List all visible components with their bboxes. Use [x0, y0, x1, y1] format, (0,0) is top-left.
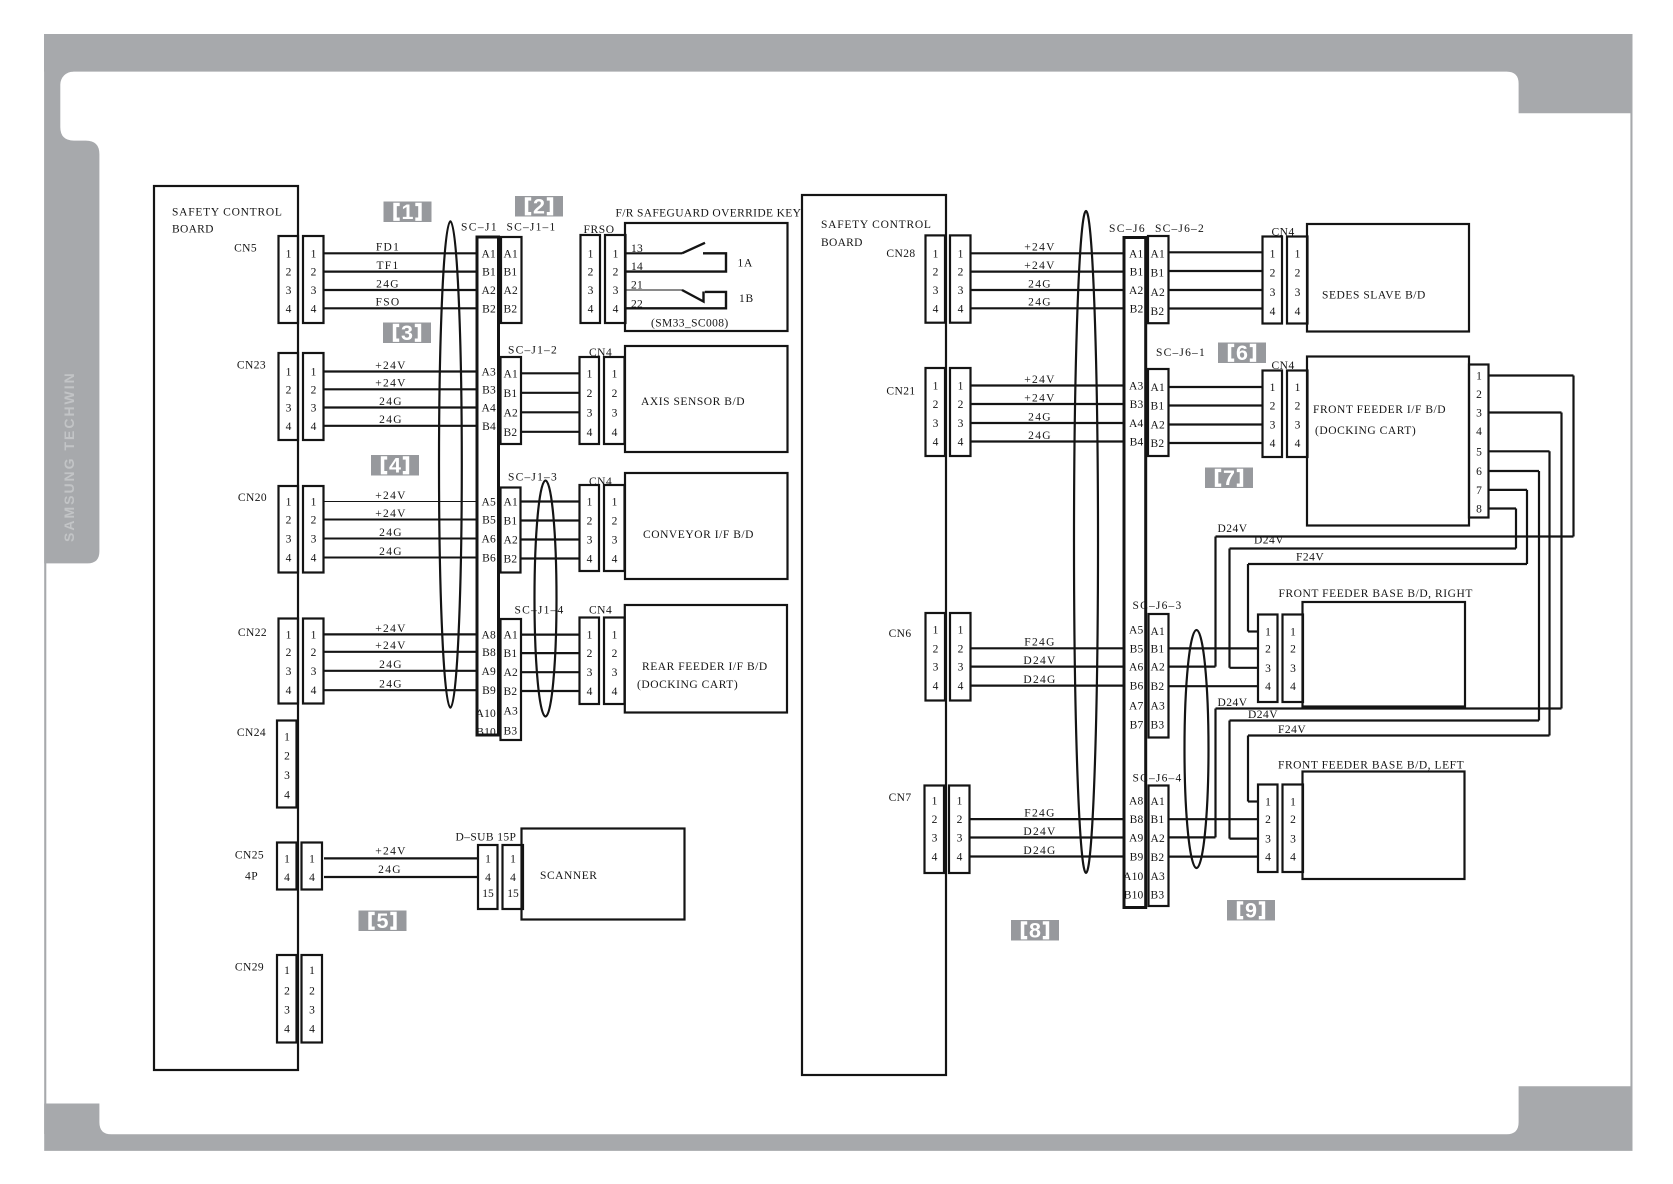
svg-text:4: 4 — [612, 427, 618, 439]
svg-text:A4: A4 — [482, 403, 497, 415]
svg-text:1: 1 — [933, 248, 939, 260]
wire TF1 CN5.2 to SC-J1 — [324, 271, 477, 273]
svg-text:4: 4 — [309, 1024, 315, 1036]
wire vert link D24V right b — [1228, 549, 1230, 668]
svg-text:FSO: FSO — [376, 297, 401, 309]
svg-text:SC–J1–1: SC–J1–1 — [507, 222, 557, 234]
svg-text:5: 5 — [377, 909, 389, 933]
svg-text:3: 3 — [587, 535, 593, 547]
svg-text:SC–J6: SC–J6 — [1109, 223, 1146, 235]
wire I/F pin6 horiz — [1489, 470, 1540, 472]
svg-text:SC–J6–3: SC–J6–3 — [1133, 600, 1183, 612]
connector base right CN — [1258, 615, 1303, 703]
svg-text:FRONT FEEDER BASE B/D, LEFT: FRONT FEEDER BASE B/D, LEFT — [1278, 760, 1464, 772]
svg-text:2: 2 — [587, 516, 593, 528]
wire +24V CN23.2 to SC-J1 — [324, 388, 477, 390]
svg-text:CN28: CN28 — [886, 248, 915, 260]
wire SC-J1-3.1 to CN4 conveyor — [521, 500, 581, 502]
svg-text:1: 1 — [309, 965, 315, 977]
svg-text:A9: A9 — [1129, 833, 1144, 845]
svg-text:1: 1 — [286, 367, 292, 379]
svg-text:A2: A2 — [504, 407, 519, 419]
svg-text:B2: B2 — [1151, 681, 1165, 693]
wire SC-J6-1.2 to CN4 ff — [1169, 404, 1264, 406]
wire 24G CN20.4 to SC-J1 — [324, 557, 477, 559]
svg-text:A6: A6 — [482, 534, 497, 546]
wire SC-J1-3.4 to CN4 conveyor — [521, 557, 581, 559]
svg-text:1: 1 — [613, 248, 619, 260]
connector SC-J1-1 — [501, 237, 522, 323]
svg-text:2: 2 — [311, 647, 317, 659]
connector CN6 — [926, 613, 971, 701]
svg-text:3: 3 — [958, 418, 964, 430]
wire SC-J1-4.1 to CN4 rear — [521, 633, 580, 635]
wire D24V CN6 to SC-J6 — [970, 665, 1124, 667]
svg-text:1: 1 — [1270, 382, 1276, 394]
svg-text:2: 2 — [1290, 814, 1296, 826]
svg-text:4: 4 — [587, 427, 593, 439]
svg-text:3: 3 — [933, 285, 939, 297]
svg-text:B2: B2 — [1130, 303, 1144, 315]
svg-text:3: 3 — [1295, 287, 1301, 299]
wire D24V run1b — [1230, 547, 1517, 549]
badge [7] — [1205, 466, 1253, 490]
connector CN4 sedes — [1263, 237, 1308, 324]
svg-text:A3: A3 — [482, 367, 497, 379]
svg-text:3: 3 — [286, 666, 292, 678]
wire I/F pin1 vert — [1572, 376, 1574, 537]
svg-text:4: 4 — [933, 437, 939, 449]
svg-text:24G: 24G — [379, 527, 403, 539]
svg-text:1: 1 — [932, 796, 938, 808]
frame left edge line — [44, 34, 46, 1134]
wire +24V CN20.2 to SC-J1 — [324, 519, 477, 521]
wire 24G CN28.4 to SC-J6 — [972, 307, 1125, 309]
svg-text:3: 3 — [587, 667, 593, 679]
svg-text:1: 1 — [284, 965, 290, 977]
svg-text:B5: B5 — [482, 515, 496, 527]
svg-text:CN21: CN21 — [886, 386, 915, 398]
svg-text:3: 3 — [286, 534, 292, 546]
wire 24G CN23.4 to SC-J1 — [324, 425, 477, 427]
svg-text:B1: B1 — [1151, 814, 1165, 826]
svg-text:3: 3 — [587, 407, 593, 419]
svg-text:+24V: +24V — [375, 360, 407, 372]
svg-text:BOARD: BOARD — [821, 237, 863, 249]
connector CN25 — [277, 843, 322, 890]
svg-text:2: 2 — [958, 267, 964, 279]
svg-text:CN25: CN25 — [235, 850, 264, 862]
svg-text:4: 4 — [613, 303, 619, 315]
svg-text:A1: A1 — [504, 630, 519, 642]
wire 24G CN23.3 to SC-J1 — [324, 406, 477, 408]
wire contact 13 — [625, 252, 682, 254]
svg-text:A8: A8 — [1129, 796, 1144, 808]
svg-text:A1: A1 — [504, 248, 519, 260]
wire 24G CN28.3 to SC-J6 — [972, 289, 1125, 291]
svg-text:3: 3 — [309, 1005, 315, 1017]
frame right edge line — [1630, 72, 1632, 1135]
svg-text:B1: B1 — [504, 516, 518, 528]
svg-text:A8: A8 — [482, 629, 497, 641]
connector SC-J1-2 — [501, 357, 522, 444]
svg-text:3: 3 — [1476, 408, 1482, 420]
svg-text:4: 4 — [957, 852, 963, 864]
svg-text:24G: 24G — [378, 864, 402, 876]
svg-text:F24G: F24G — [1024, 637, 1055, 649]
svg-text:B2: B2 — [1151, 852, 1165, 864]
svg-text:3: 3 — [1290, 834, 1296, 846]
svg-text:3: 3 — [612, 667, 618, 679]
svg-text:A2: A2 — [1151, 833, 1166, 845]
svg-text:3: 3 — [933, 418, 939, 430]
svg-text:CN4: CN4 — [589, 605, 612, 617]
svg-text:B3: B3 — [1151, 720, 1165, 732]
svg-text:2: 2 — [309, 986, 315, 998]
connector D-SUB 15P — [478, 845, 523, 909]
svg-text:B1: B1 — [504, 648, 518, 660]
svg-text:15: 15 — [482, 888, 494, 900]
svg-text:2: 2 — [311, 267, 317, 279]
svg-text:SC–J6–2: SC–J6–2 — [1155, 223, 1205, 235]
svg-text:A2: A2 — [1151, 287, 1166, 299]
svg-text:A1: A1 — [504, 368, 519, 380]
svg-text:1: 1 — [1265, 797, 1271, 809]
box SCANNER — [522, 829, 685, 920]
wire SC-J1-4.2 to CN4 rear — [521, 652, 580, 654]
wire vert link D24V left — [1214, 709, 1216, 838]
frame bottom band with corner tabs — [44, 1086, 1632, 1151]
svg-text:CN20: CN20 — [238, 492, 267, 504]
wire vert link D24V left b — [1228, 721, 1230, 839]
svg-text:1: 1 — [286, 497, 292, 509]
wire D24G SC-J6-3 to base right — [1169, 685, 1259, 687]
wire +24V CN22.1 to SC-J1 — [324, 633, 477, 635]
svg-text:A1: A1 — [504, 497, 519, 509]
box AXIS SENSOR B/D — [625, 346, 788, 452]
frame left sidebar — [44, 71, 99, 564]
wire SC-J1-2.3 to CN4 axis — [521, 411, 580, 413]
box FRONT FEEDER BASE B/D RIGHT — [1303, 602, 1466, 707]
svg-text:A9: A9 — [482, 666, 497, 678]
wire SC-J1-2.4 to CN4 axis — [521, 431, 580, 433]
wire 24G CN5.3 to SC-J1 — [324, 289, 477, 291]
svg-text:24G: 24G — [379, 414, 403, 426]
svg-text:4: 4 — [612, 686, 618, 698]
svg-text:B4: B4 — [1130, 437, 1144, 449]
svg-text:1: 1 — [1295, 382, 1301, 394]
svg-text:4: 4 — [1290, 852, 1296, 864]
svg-text:1: 1 — [286, 248, 292, 260]
svg-text:3: 3 — [933, 662, 939, 674]
connector SC-J1-3 — [501, 488, 521, 573]
svg-text:1: 1 — [311, 367, 317, 379]
svg-text:4: 4 — [958, 681, 964, 693]
connector SC-J6-3 — [1149, 614, 1169, 738]
svg-text:B1: B1 — [1151, 644, 1165, 656]
svg-text:4: 4 — [311, 553, 317, 565]
svg-text:SC–J1–3: SC–J1–3 — [508, 472, 558, 484]
svg-text:D24G: D24G — [1023, 845, 1056, 857]
wire FD1 CN5.1 to SC-J1 — [324, 252, 477, 254]
svg-text:1: 1 — [587, 630, 593, 642]
svg-text:1B: 1B — [739, 293, 754, 305]
svg-text:SC–J1–4: SC–J1–4 — [515, 605, 565, 617]
svg-text:A1: A1 — [1151, 626, 1166, 638]
svg-text:+24V: +24V — [1024, 260, 1056, 272]
svg-text:D24V: D24V — [1218, 523, 1248, 535]
svg-text:4: 4 — [286, 685, 292, 697]
badge [4] — [371, 454, 419, 478]
svg-text:+24V: +24V — [375, 623, 407, 635]
wire I/F pin5 vert — [1548, 451, 1550, 735]
connector CN4 rear — [580, 618, 625, 705]
svg-text:A3: A3 — [1129, 381, 1144, 393]
svg-text:B9: B9 — [1130, 852, 1144, 864]
wire vert link F24V right — [1247, 564, 1249, 632]
svg-text:+24V: +24V — [375, 508, 407, 520]
contact bracket 1B — [625, 292, 726, 308]
svg-text:1: 1 — [284, 732, 290, 744]
svg-text:1: 1 — [284, 853, 290, 865]
svg-text:4: 4 — [286, 303, 292, 315]
svg-text:6: 6 — [1476, 466, 1482, 478]
wire vert link D24V right — [1214, 537, 1216, 667]
svg-text:4: 4 — [588, 303, 594, 315]
svg-text:A5: A5 — [1129, 624, 1144, 636]
wire vert link F24V left — [1247, 736, 1249, 802]
svg-text:1: 1 — [958, 381, 964, 393]
wire base right pin1 stub — [1248, 630, 1258, 632]
svg-text:1: 1 — [1290, 627, 1296, 639]
wire I/F pin3 horiz — [1489, 411, 1562, 413]
svg-text:4: 4 — [1270, 306, 1276, 318]
svg-text:F24V: F24V — [1296, 552, 1324, 564]
svg-text:D24V: D24V — [1023, 655, 1056, 667]
svg-text:4: 4 — [309, 872, 315, 884]
svg-text:2: 2 — [311, 384, 317, 396]
svg-text:B5: B5 — [1130, 643, 1144, 655]
svg-text:4: 4 — [311, 685, 317, 697]
left safety control board — [154, 186, 298, 1070]
wire SC-J1-3.2 to CN4 conveyor — [521, 519, 581, 521]
svg-text:24G: 24G — [379, 659, 403, 671]
wire I/F pin1 horiz — [1489, 374, 1574, 376]
svg-text:1: 1 — [587, 497, 593, 509]
svg-text:2: 2 — [588, 267, 594, 279]
svg-text:A1: A1 — [1151, 248, 1166, 260]
svg-text:1: 1 — [402, 200, 414, 224]
right safety control board — [802, 195, 946, 1075]
badge [1] — [384, 200, 432, 224]
svg-text:2: 2 — [284, 986, 290, 998]
svg-text:3: 3 — [286, 403, 292, 415]
svg-text:7: 7 — [1476, 485, 1482, 497]
svg-text:15: 15 — [507, 888, 519, 900]
badge [3] — [383, 321, 431, 345]
wire +24V CN21.2 to SC-J6 — [972, 403, 1125, 405]
svg-text:1: 1 — [1265, 627, 1271, 639]
connector FRSO — [581, 235, 626, 323]
svg-text:3: 3 — [612, 407, 618, 419]
svg-text:1: 1 — [311, 248, 317, 260]
wire SC-J6-2.1 to CN4 sedes — [1169, 251, 1264, 253]
svg-text:FD1: FD1 — [376, 242, 400, 254]
svg-text:3: 3 — [1265, 663, 1271, 675]
wire SC-J6-2.2 to CN4 sedes — [1169, 270, 1264, 272]
cable bundle ellipse SC-J6-3/4 — [1185, 630, 1209, 868]
svg-text:1: 1 — [587, 368, 593, 380]
svg-text:4: 4 — [587, 686, 593, 698]
svg-text:B2: B2 — [1151, 306, 1165, 318]
wire SC-J1-4.3 to CN4 rear — [521, 671, 580, 673]
svg-text:B9: B9 — [482, 685, 496, 697]
connector SC-J6-2 — [1148, 236, 1169, 323]
svg-text:2: 2 — [286, 267, 292, 279]
svg-text:A5: A5 — [482, 497, 497, 509]
svg-text:CN5: CN5 — [234, 243, 257, 255]
connector CN4 axis — [580, 357, 625, 444]
wire SC-J6-1.4 to CN4 ff — [1169, 442, 1264, 444]
svg-text:3: 3 — [284, 1005, 290, 1017]
svg-text:4: 4 — [284, 790, 290, 802]
svg-text:2: 2 — [311, 515, 317, 527]
svg-text:1: 1 — [485, 853, 491, 865]
svg-text:2: 2 — [533, 195, 545, 219]
box FRONT FEEDER I/F B/D — [1307, 357, 1469, 526]
svg-text:A10: A10 — [1123, 871, 1143, 883]
svg-text:1: 1 — [958, 624, 964, 636]
svg-text:B2: B2 — [504, 427, 518, 439]
svg-text:3: 3 — [1290, 663, 1296, 675]
wire F24G CN6 to SC-J6 — [970, 647, 1124, 649]
svg-text:4: 4 — [286, 553, 292, 565]
svg-text:24G: 24G — [379, 679, 403, 691]
svg-text:2: 2 — [1295, 401, 1301, 413]
svg-text:A3: A3 — [504, 706, 519, 718]
svg-text:+24V: +24V — [1024, 242, 1056, 254]
svg-text:4: 4 — [933, 303, 939, 315]
box CONVEYOR I/F B/D — [625, 473, 788, 579]
svg-text:24G: 24G — [379, 396, 403, 408]
wire 24G CN20.3 to SC-J1 — [324, 538, 477, 540]
svg-text:D–SUB 15P: D–SUB 15P — [456, 832, 517, 844]
svg-text:B2: B2 — [504, 686, 518, 698]
svg-text:+24V: +24V — [1024, 374, 1056, 386]
svg-text:3: 3 — [401, 321, 413, 345]
wire +24V CN28.2 to SC-J6 — [972, 271, 1125, 273]
wire D24V SC-J6-3 seg — [1169, 665, 1216, 667]
svg-text:4: 4 — [1265, 681, 1271, 693]
wire F24G CN7 to SC-J6 — [970, 818, 1124, 820]
wire I/F pin3 vert — [1560, 413, 1562, 709]
svg-text:+24V: +24V — [1024, 392, 1056, 404]
wire F24V run1 — [1248, 563, 1527, 565]
svg-text:3: 3 — [311, 285, 317, 297]
svg-text:+24V: +24V — [375, 640, 407, 652]
badge [6] — [1218, 341, 1266, 365]
svg-text:1: 1 — [510, 853, 516, 865]
wire 24G CN22.3 to SC-J1 — [324, 670, 477, 672]
svg-text:1: 1 — [612, 497, 618, 509]
svg-text:6: 6 — [1236, 341, 1248, 365]
wire +24V CN25 to D-SUB — [324, 857, 478, 859]
svg-text:2: 2 — [286, 647, 292, 659]
contact bracket 1A — [625, 253, 726, 271]
svg-text:B6: B6 — [1130, 681, 1144, 693]
connector CN29 — [277, 955, 322, 1043]
svg-text:2: 2 — [612, 648, 618, 660]
svg-text:2: 2 — [933, 267, 939, 279]
svg-text:4: 4 — [958, 437, 964, 449]
svg-text:8: 8 — [1029, 919, 1041, 943]
svg-text:A6: A6 — [1129, 662, 1144, 674]
svg-text:A2: A2 — [482, 285, 497, 297]
svg-text:A1: A1 — [482, 248, 497, 260]
connector CN5 — [279, 236, 324, 323]
svg-text:A10: A10 — [476, 708, 496, 720]
svg-text:24G: 24G — [379, 546, 403, 558]
svg-text:2: 2 — [933, 399, 939, 411]
svg-text:1A: 1A — [738, 258, 753, 270]
svg-text:2: 2 — [958, 643, 964, 655]
svg-text:CN24: CN24 — [237, 727, 266, 739]
svg-text:3: 3 — [932, 833, 938, 845]
wire 24G CN21.4 to SC-J6 — [972, 440, 1125, 442]
connector CN28 — [926, 235, 971, 322]
svg-text:A2: A2 — [1151, 420, 1166, 432]
svg-text:2: 2 — [612, 516, 618, 528]
svg-text:D24V: D24V — [1248, 709, 1278, 721]
wire 24G CN25 to D-SUB — [324, 876, 478, 878]
svg-text:2: 2 — [612, 388, 618, 400]
svg-text:A2: A2 — [1151, 662, 1166, 674]
wire F24V run2 — [1248, 734, 1550, 736]
svg-text:8: 8 — [1476, 504, 1482, 516]
svg-text:1: 1 — [286, 629, 292, 641]
wire 24G CN22.4 to SC-J1 — [324, 689, 477, 691]
svg-text:1: 1 — [612, 630, 618, 642]
svg-text:2: 2 — [932, 814, 938, 826]
svg-text:SAMSUNG TECHWIN: SAMSUNG TECHWIN — [61, 371, 77, 542]
svg-text:1: 1 — [311, 629, 317, 641]
svg-text:3: 3 — [1265, 834, 1271, 846]
connector CN24 — [277, 721, 297, 808]
svg-text:3: 3 — [311, 403, 317, 415]
wire base left pin1 stub — [1248, 800, 1258, 802]
svg-text:24G: 24G — [1028, 297, 1052, 309]
connector SC-J1-4 — [501, 619, 522, 740]
wire +24V CN20.1 to SC-J1 — [324, 501, 477, 503]
svg-text:1: 1 — [1476, 371, 1482, 383]
wire +24V CN21.1 to SC-J6 — [972, 384, 1125, 386]
svg-text:F/R SAFEGUARD OVERRIDE KEY: F/R SAFEGUARD OVERRIDE KEY — [616, 208, 802, 220]
svg-text:3: 3 — [612, 535, 618, 547]
svg-text:(DOCKING CART): (DOCKING CART) — [637, 679, 738, 691]
wire SC-J1-2.2 to CN4 axis — [521, 392, 580, 394]
svg-text:D24V: D24V — [1023, 826, 1056, 838]
wire D24V run2a — [1216, 707, 1562, 709]
wire 24G CN21.3 to SC-J6 — [972, 422, 1125, 424]
wire D24V CN7 to SC-J6 — [970, 836, 1124, 838]
svg-text:A2: A2 — [504, 535, 519, 547]
svg-text:4: 4 — [1265, 852, 1271, 864]
svg-text:A3: A3 — [1151, 871, 1166, 883]
svg-text:9: 9 — [1245, 899, 1257, 923]
svg-text:4: 4 — [958, 303, 964, 315]
cable bundle ellipse SC-J1-3/4 — [535, 481, 557, 717]
wire D24V to base left pin3 — [1230, 837, 1259, 839]
